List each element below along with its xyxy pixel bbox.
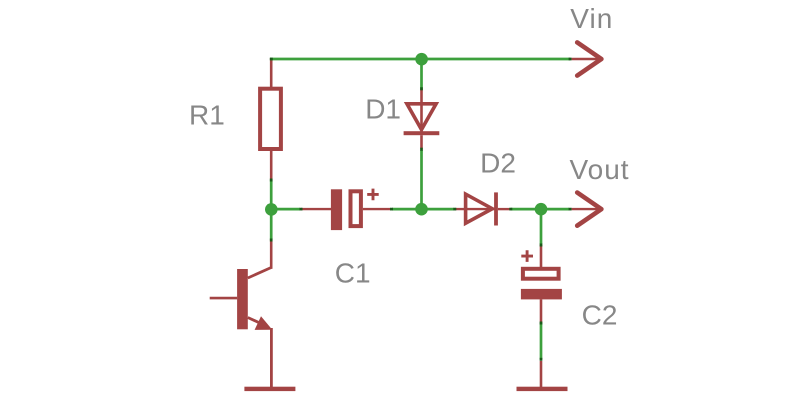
transistor Q1 collector diagonal [248, 268, 271, 279]
capacitor C1 left plate [331, 189, 342, 230]
pin junction tick Vin lead [569, 58, 572, 61]
resistor R1 top pin [270, 58, 273, 89]
transistor Q1 emitter arrow [255, 316, 273, 330]
capacitor C1 right plate [351, 191, 361, 226]
pin junction tick D1 top [420, 87, 423, 90]
Vout arrow [577, 193, 601, 226]
pin junction tick Vout lead [569, 208, 572, 211]
transistor Q1 emitter to ground wire [270, 328, 273, 388]
ground GND2 pin [540, 361, 543, 388]
pin junction tick C1 right [390, 208, 393, 211]
transistor Q1 collector pin [270, 239, 273, 269]
wire D1 upper drop [420, 59, 423, 89]
resistor R1 [260, 89, 281, 149]
transistor Q1 emitter diagonal [248, 318, 267, 327]
transistor Q1 base lead [210, 297, 237, 300]
Vin arrow lead [572, 58, 600, 60]
wire D1 lower drop [420, 150, 423, 209]
svg-text:Vout: Vout [570, 154, 630, 185]
Vin arrow [577, 42, 601, 75]
capacitor C2 top pin [540, 245, 543, 268]
wire R1 bottom to node [270, 179, 273, 209]
svg-text:D1: D1 [365, 93, 401, 124]
pin junction tick GND2 [540, 358, 543, 361]
diode D1 cathode bar [404, 131, 440, 135]
diode D2 left pin [455, 208, 495, 210]
wire top rail Vin net [270, 58, 570, 61]
transistor Q1 base bar [237, 269, 248, 329]
pin junction tick D2 right [509, 208, 512, 211]
capacitor C2 top plate [523, 269, 559, 279]
junction node mid rail D1 [415, 203, 428, 216]
pin junction tick top-left corner [270, 58, 273, 61]
pin junction tick C2 bottom [540, 322, 543, 325]
wire node to collector [270, 209, 273, 239]
ground GND1 [244, 387, 295, 391]
pin junction tick D2 left [453, 208, 456, 211]
wire C1 to D2 [392, 208, 454, 211]
capacitor C1 plus sign [367, 189, 379, 201]
svg-text:C2: C2 [582, 300, 618, 331]
svg-text:C1: C1 [335, 258, 371, 289]
junction node mid rail left [265, 203, 278, 216]
svg-text:R1: R1 [189, 100, 225, 131]
pin junction tick R1 bottom [270, 179, 273, 182]
capacitor C2 plus sign [521, 250, 533, 262]
capacitor C1 left pin [301, 208, 332, 210]
pin junction tick C2 top [540, 244, 543, 247]
svg-text:Vin: Vin [570, 3, 613, 34]
wire C2 to ground [540, 322, 543, 359]
junction node top rail D1 [415, 53, 428, 66]
diode D1 [407, 104, 436, 130]
capacitor C2 bottom pin [540, 299, 543, 322]
diode D2 cathode bar [494, 192, 498, 225]
Vout arrow lead [572, 208, 600, 210]
junction node mid rail C2 [535, 203, 548, 216]
wire node to C2 [540, 209, 543, 244]
resistor R1 bottom pin [270, 149, 273, 179]
pin junction tick D1 bottom [420, 148, 423, 151]
wire mid rail node to C1 [271, 208, 300, 211]
diode D2 [466, 194, 493, 223]
ground GND2 [517, 387, 568, 391]
capacitor C1 right pin [363, 208, 391, 210]
capacitor C2 bottom plate [521, 289, 562, 300]
svg-text:D2: D2 [480, 147, 516, 178]
pin junction tick collector [270, 239, 273, 242]
diode D1 top pin [420, 89, 423, 132]
pin junction tick C1 left [300, 208, 303, 211]
diode D2 right pin [498, 208, 510, 210]
diode D1 bottom pin [420, 135, 423, 148]
wire D2 to Vout [511, 208, 570, 211]
